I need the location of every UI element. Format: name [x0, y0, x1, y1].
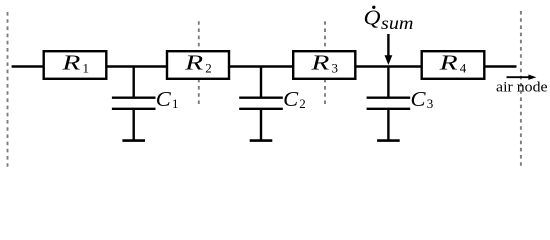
svg-text:Q: Q	[364, 5, 381, 29]
svg-text:sum: sum	[381, 13, 414, 33]
svg-text:C: C	[411, 87, 427, 111]
svg-text:R: R	[61, 50, 81, 74]
svg-text:3: 3	[427, 96, 434, 111]
svg-text:2: 2	[299, 96, 306, 111]
svg-text:R: R	[184, 50, 204, 74]
svg-text:air node: air node	[496, 80, 548, 96]
svg-text:1: 1	[83, 60, 90, 75]
svg-text:C: C	[156, 87, 172, 111]
svg-text:4: 4	[460, 60, 467, 75]
svg-text:R: R	[310, 50, 330, 74]
svg-text:C: C	[283, 87, 299, 111]
svg-text:R: R	[438, 50, 458, 74]
svg-text:3: 3	[332, 60, 339, 75]
svg-text:1: 1	[172, 96, 179, 111]
svg-text:2: 2	[205, 60, 212, 75]
